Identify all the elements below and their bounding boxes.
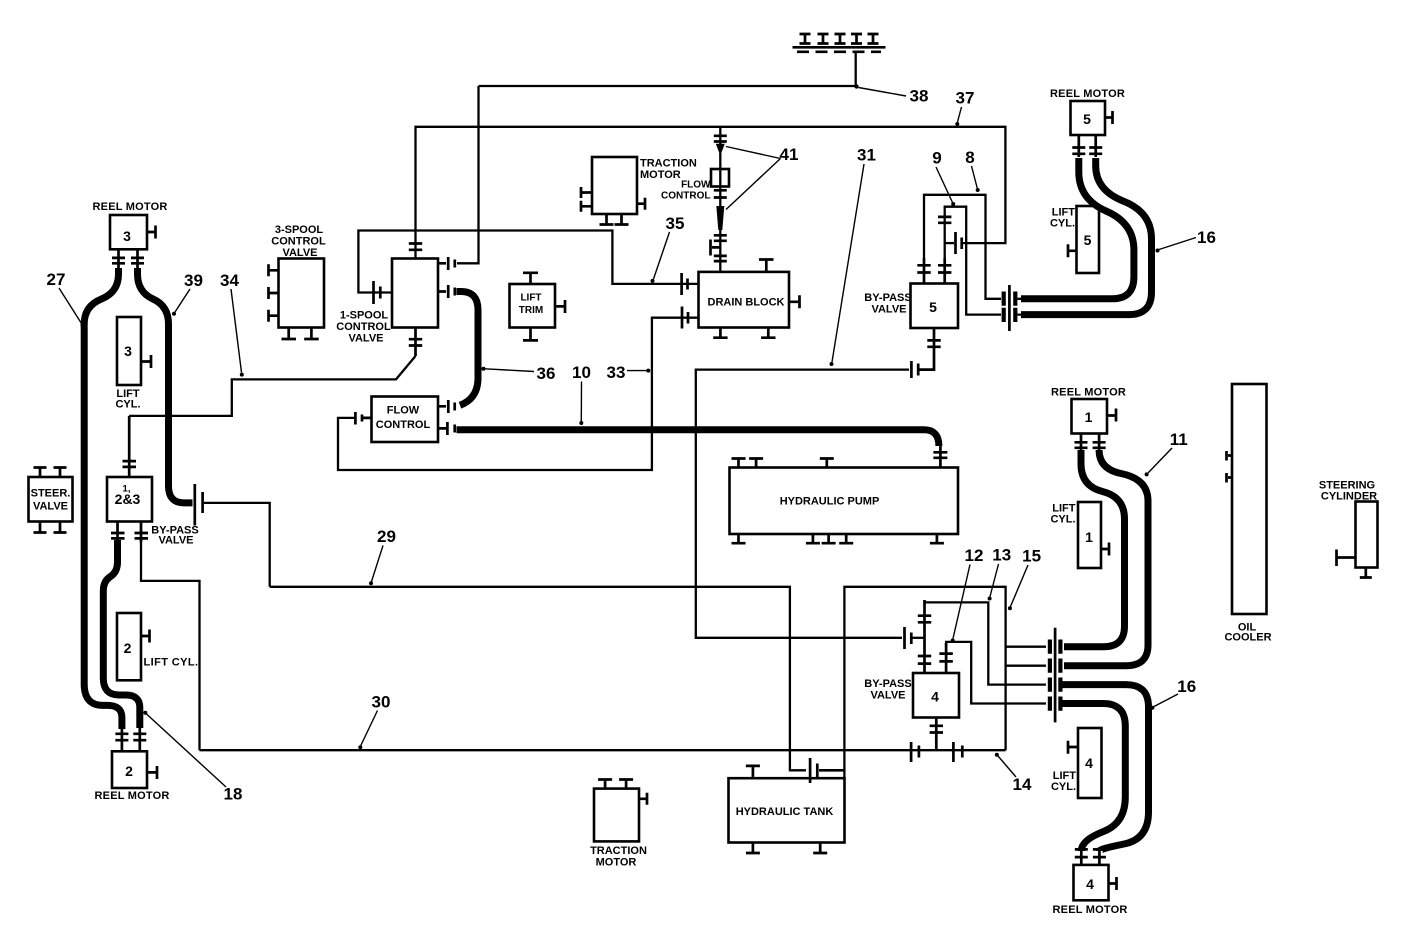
hydraulic tank top coupling <box>810 758 844 783</box>
svg-text:10: 10 <box>572 363 591 382</box>
wire: by-pass valve 5 return to by-pass valve 4 pilot <box>696 370 909 638</box>
svg-text:37: 37 <box>956 89 975 108</box>
svg-text:3-SPOOL: 3-SPOOL <box>275 224 324 236</box>
svg-text:HYDRAULIC TANK: HYDRAULIC TANK <box>736 806 834 818</box>
restrictor side shaft <box>711 240 721 256</box>
steer valve bottom ports <box>34 522 67 533</box>
oil cooler left ports <box>1227 451 1233 483</box>
svg-text:COOLER: COOLER <box>1224 632 1271 644</box>
wire 38 horizontal band <box>479 85 856 87</box>
wire: riser from wire38 down to 1-spool valve right coupling <box>457 86 479 263</box>
hydraulic tank <box>729 778 845 842</box>
orifice wedge lower (41) <box>716 206 724 230</box>
oil cooler <box>1232 384 1267 614</box>
bulkhead coupling bars lower line <box>1004 308 1016 322</box>
wire 29 band (right segment to by-pass valve 4) <box>844 587 1005 778</box>
1-spool valve lower right coupling <box>438 285 455 298</box>
hydraulic tank top port <box>746 766 760 778</box>
svg-text:3: 3 <box>123 228 131 244</box>
svg-text:1: 1 <box>1085 409 1093 425</box>
svg-text:BY-PASS: BY-PASS <box>864 678 911 690</box>
drain block shaft <box>789 295 800 308</box>
svg-text:MOTOR: MOTOR <box>596 857 637 869</box>
by-pass valve 1,2,3 top port <box>123 416 137 477</box>
svg-text:REEL MOTOR: REEL MOTOR <box>1053 904 1128 916</box>
coupling left on wire 30 <box>911 742 919 762</box>
reel motor 3 <box>110 215 147 249</box>
wire from valve 1,2,3 right port to wire 30 band <box>141 540 200 750</box>
svg-text:1-SPOOL: 1-SPOOL <box>340 310 389 322</box>
hose 11 (reel motor 1 left port to stack line 1) <box>1064 450 1125 647</box>
reel motor 4 right port <box>1093 849 1106 865</box>
bulkhead coupling bars line 4 <box>1050 697 1061 711</box>
reel motor 5 right port <box>1089 135 1102 157</box>
svg-text:12: 12 <box>965 546 984 565</box>
lift cyl 1 shaft <box>1101 543 1109 556</box>
pilot wire stem segment <box>945 242 954 244</box>
svg-text:REEL MOTOR: REEL MOTOR <box>93 201 168 213</box>
svg-text:CYL.: CYL. <box>1050 218 1075 230</box>
lift cyl 3 <box>117 317 141 385</box>
steer valve top ports <box>34 468 67 478</box>
lift cyl 2 <box>117 613 141 680</box>
reservoir vent manifold symbol <box>793 34 886 52</box>
lift cyl 1 <box>1078 502 1101 568</box>
1-spool control valve <box>392 259 438 328</box>
lift cyl 5 <box>1077 206 1100 273</box>
tube 12: valve 4 right port wire to stack line 4 <box>946 642 1046 704</box>
hose 16 upper (reel motor 5 left port) <box>1021 158 1134 299</box>
by-pass valve 5 bottom port <box>920 328 941 370</box>
by-pass valve 5 left port <box>917 258 930 284</box>
coupling on hose 39 <box>195 484 203 526</box>
hose 36 (1-spool valve to flow control) <box>457 292 479 406</box>
wire 33: drain block to flow control box <box>338 318 699 470</box>
svg-text:33: 33 <box>607 363 626 382</box>
svg-text:31: 31 <box>857 146 876 165</box>
lift cyl 4 shaft <box>1068 741 1078 754</box>
lift trim shaft <box>555 300 565 313</box>
1-spool valve top port bars <box>409 244 422 250</box>
reel motor 2 shaft <box>147 766 157 779</box>
coupling below by-pass valve 5 <box>911 361 918 378</box>
pilot coupling at by-pass valve 5 <box>956 232 962 254</box>
hose from valve 1,2,3 left port to reel motor 2 right port <box>103 540 140 728</box>
1-spool valve upper right coupling <box>438 257 455 270</box>
1-spool valve left coupling <box>374 281 381 304</box>
reel motor 1 shaft <box>1107 409 1116 422</box>
restrictor bars mid <box>714 190 727 197</box>
reel motor 1 left port <box>1075 434 1088 452</box>
steer valve <box>29 477 73 522</box>
reel motor 2 right port <box>133 728 146 751</box>
coupling right on wire 30 <box>953 742 962 762</box>
hydraulic tank bottom ports <box>746 843 827 854</box>
hose 39 (reel motor 3 right port to coupling) <box>138 268 193 503</box>
hydraulic pump bottom ports <box>732 534 944 543</box>
traction motor (upper) <box>592 157 637 214</box>
node at wire 38 junction <box>854 84 858 88</box>
svg-text:13: 13 <box>992 546 1011 565</box>
svg-text:34: 34 <box>220 271 239 290</box>
svg-text:VALVE: VALVE <box>870 690 905 702</box>
svg-text:9: 9 <box>932 149 941 168</box>
svg-text:CYL.: CYL. <box>1051 781 1076 793</box>
tube 8: outer loop wire <box>924 195 1001 299</box>
svg-text:MOTOR: MOTOR <box>640 169 681 181</box>
svg-text:2: 2 <box>124 640 132 656</box>
wire band 232: drain block / comb riser / 1-spool left <box>358 231 698 293</box>
traction motor upper bottom ports <box>600 214 629 225</box>
hose 16 (stack line 4 to reel motor 4 left port) <box>1062 704 1125 852</box>
svg-text:1: 1 <box>1085 529 1093 545</box>
wire 30 band <box>200 749 1006 751</box>
svg-text:CYL.: CYL. <box>1050 514 1075 526</box>
svg-text:35: 35 <box>666 214 685 233</box>
svg-text:29: 29 <box>377 527 396 546</box>
hydraulic pump top ports <box>732 459 834 468</box>
svg-text:39: 39 <box>184 271 203 290</box>
reel motor 5 <box>1071 101 1106 135</box>
traction motor upper left ports <box>581 187 592 212</box>
svg-text:14: 14 <box>1013 775 1032 794</box>
flow control lower right coupling <box>438 422 455 435</box>
svg-text:TRACTION: TRACTION <box>590 845 647 857</box>
reel motor 4 left port <box>1075 849 1088 865</box>
hose 16 lower (reel motor 5 right port) <box>1021 158 1152 315</box>
svg-text:38: 38 <box>910 87 929 106</box>
wire 29 band (left segment) <box>270 587 806 771</box>
lift trim bottom port <box>523 328 538 341</box>
svg-text:CONTROL: CONTROL <box>376 419 431 431</box>
svg-text:11: 11 <box>1170 430 1188 449</box>
reel motor 3 right port <box>131 249 144 270</box>
pilot coupling at by-pass valve 4 <box>905 627 912 649</box>
svg-text:CONTROL: CONTROL <box>661 191 710 202</box>
reel motor 1 <box>1072 399 1108 434</box>
flow control small box <box>711 169 729 187</box>
svg-text:TRACTION: TRACTION <box>640 158 697 170</box>
svg-text:VALVE: VALVE <box>33 501 68 513</box>
drain block <box>699 272 790 328</box>
svg-text:5: 5 <box>929 299 937 315</box>
svg-text:TRIM: TRIM <box>519 305 543 316</box>
hose 16 (stack line 3 to reel motor 4 right port) <box>1062 685 1149 851</box>
reel motor 5 left port <box>1072 135 1085 157</box>
tube 13: valve 4 left port wire to stack line 3 <box>925 602 1047 684</box>
svg-text:LIFT: LIFT <box>520 293 541 304</box>
reel motor 5 shaft <box>1105 111 1113 124</box>
hydraulic pump <box>730 468 959 535</box>
svg-text:5: 5 <box>1084 232 1092 248</box>
svg-text:FLOW: FLOW <box>681 180 711 191</box>
svg-text:2&3: 2&3 <box>115 491 141 507</box>
svg-text:CONTROL: CONTROL <box>336 321 391 333</box>
svg-text:CYLINDER: CYLINDER <box>1321 491 1377 503</box>
svg-text:36: 36 <box>537 364 556 383</box>
reel motor 4 shaft <box>1109 877 1117 890</box>
orifice wedge upper (41) <box>716 144 725 153</box>
3-spool valve bottom ports <box>282 328 319 340</box>
reel motor 2 <box>112 751 147 788</box>
svg-text:CYL.: CYL. <box>115 399 140 411</box>
steering cylinder bottom port <box>1360 568 1372 578</box>
steering cylinder shaft <box>1337 550 1356 567</box>
bulkhead coupling plate (reel motor 5 circuit) <box>1008 285 1011 331</box>
wire band 127: 1-spool top port to by-pass valve 5 pilot <box>416 127 1006 259</box>
by-pass valve 1,2,3 <box>107 477 152 522</box>
lift cyl 5 shaft <box>1068 244 1077 257</box>
svg-text:4: 4 <box>931 689 939 705</box>
wire from coupling to wire 29 band <box>204 503 270 587</box>
svg-text:CONTROL: CONTROL <box>271 236 326 248</box>
bulkhead coupling bars line 3 <box>1050 678 1061 692</box>
tube 9: inner loop wire <box>945 207 1001 315</box>
svg-text:HYDRAULIC PUMP: HYDRAULIC PUMP <box>780 496 880 508</box>
by-pass valve 1,2,3 left port <box>111 522 125 543</box>
pilot wire stub into valve 4 left port <box>913 637 925 639</box>
stub wires at bulkhead <box>1018 299 1024 315</box>
lift trim valve <box>510 284 556 328</box>
reel motor 1 right port <box>1093 434 1106 452</box>
traction motor lower shaft <box>639 793 647 805</box>
leader 37 <box>958 107 962 122</box>
svg-text:16: 16 <box>1197 228 1216 247</box>
svg-text:REEL MOTOR: REEL MOTOR <box>95 790 170 802</box>
traction motor upper shaft <box>637 198 645 210</box>
svg-text:LIFT CYL.: LIFT CYL. <box>144 657 199 669</box>
flow control upper right coupling <box>438 400 455 413</box>
svg-text:VALVE: VALVE <box>158 535 193 547</box>
wires: stack lines 1 and 2 from wire 15 riser <box>1006 647 1046 666</box>
svg-text:BY-PASS: BY-PASS <box>864 292 911 304</box>
svg-text:3: 3 <box>124 343 132 359</box>
svg-text:27: 27 <box>47 270 66 289</box>
svg-text:DRAIN BLOCK: DRAIN BLOCK <box>708 297 785 309</box>
restrictor bars lower <box>714 235 727 241</box>
steering cylinder <box>1356 502 1378 568</box>
by-pass valve 5 right port upper bars <box>938 217 951 223</box>
svg-text:4: 4 <box>1085 755 1093 771</box>
by-pass valve 4 left port upper bars <box>918 616 931 623</box>
by-pass valve 4 <box>913 673 959 718</box>
by-pass valve 4 bottom port <box>930 718 943 751</box>
1-spool valve bottom port <box>409 328 422 357</box>
svg-text:4: 4 <box>1086 876 1094 892</box>
svg-text:16: 16 <box>1177 677 1196 696</box>
by-pass valve 5 right port <box>938 258 951 284</box>
reel motor 4 <box>1074 865 1109 900</box>
svg-text:18: 18 <box>224 785 243 804</box>
restrictor bars above drain block <box>714 256 727 261</box>
traction motor lower top ports <box>598 780 633 789</box>
lift cyl 2 shaft <box>141 630 150 643</box>
svg-text:41: 41 <box>780 145 799 164</box>
wire from manifold down <box>855 52 857 86</box>
lift cyl 3 shaft <box>141 355 151 368</box>
bulkhead coupling bars line 2 <box>1050 659 1061 673</box>
svg-text:8: 8 <box>965 148 974 167</box>
hose 27 (reel motor 3 left port to reel motor 2 left port) <box>84 268 122 729</box>
restrictor bars upper <box>714 136 727 142</box>
reel motor 2 left port <box>115 728 128 751</box>
bulkhead coupling plate (reel motor 1 and 4 circuits) <box>1054 628 1057 723</box>
flow control left coupling <box>355 412 371 425</box>
hose 10 (flow control to hydraulic pump) <box>457 430 939 446</box>
svg-text:REEL MOTOR: REEL MOTOR <box>1051 387 1126 399</box>
svg-text:5: 5 <box>1083 111 1091 127</box>
flow control restrictor line 41 <box>719 127 721 272</box>
drain block top port <box>759 260 774 272</box>
leader 38 <box>859 88 907 97</box>
reel motor 3 left port <box>112 249 125 270</box>
svg-text:2: 2 <box>125 763 133 779</box>
drain block bottom ports <box>713 328 775 338</box>
svg-text:STEER.: STEER. <box>31 488 71 500</box>
flow control box <box>372 397 439 443</box>
hydraulic pump top port <box>933 446 947 468</box>
svg-text:FLOW: FLOW <box>387 405 420 417</box>
drain block lower left coupling <box>682 307 688 329</box>
by-pass valve 4 right port <box>939 643 952 673</box>
by-pass valve 5 <box>911 284 959 329</box>
traction motor (lower) <box>594 789 639 842</box>
svg-text:15: 15 <box>1022 547 1041 566</box>
svg-text:VALVE: VALVE <box>282 247 317 259</box>
hose 11 (reel motor 1 right port to stack line 2) <box>1064 450 1148 666</box>
3-spool control valve <box>279 259 325 328</box>
svg-text:REEL MOTOR: REEL MOTOR <box>1050 88 1125 100</box>
wire staircase from 1-spool bottom port to by-pass valve 1,2,3 <box>129 356 415 416</box>
by-pass valve 1,2,3 right port <box>135 522 149 543</box>
svg-text:VALVE: VALVE <box>348 333 383 345</box>
lift trim top port <box>523 273 538 284</box>
bulkhead coupling bars line 1 <box>1050 640 1061 654</box>
reel motor 3 shaft <box>147 226 156 239</box>
3-spool valve left ports <box>269 264 279 321</box>
svg-text:30: 30 <box>372 693 391 712</box>
bulkhead coupling bars upper line <box>1004 292 1016 306</box>
lift cyl 4 <box>1078 728 1102 798</box>
by-pass valve 4 left port <box>918 600 931 673</box>
svg-text:VALVE: VALVE <box>871 304 906 316</box>
drain block upper left coupling <box>682 273 688 295</box>
